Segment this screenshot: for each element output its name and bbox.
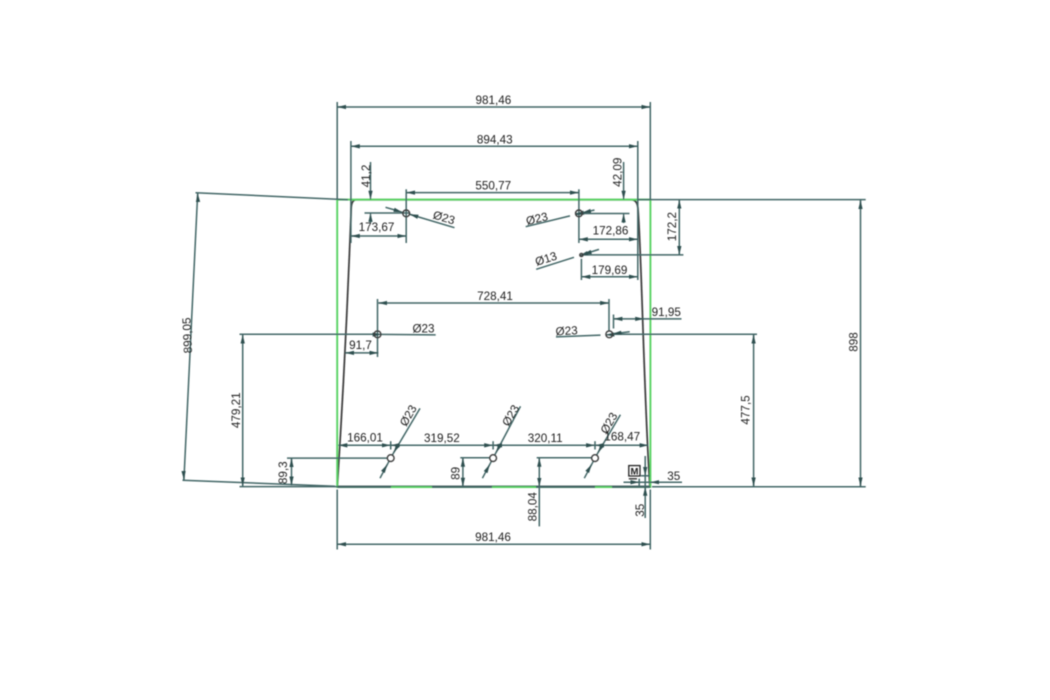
svg-text:899,05: 899,05 [180, 317, 195, 354]
svg-text:91,95: 91,95 [652, 306, 682, 319]
svg-text:172,2: 172,2 [666, 212, 679, 241]
svg-text:319,52: 319,52 [424, 432, 460, 445]
svg-text:41,2: 41,2 [360, 165, 373, 188]
svg-text:179,69: 179,69 [592, 264, 628, 277]
svg-text:981,46: 981,46 [475, 531, 511, 544]
svg-text:88,04: 88,04 [526, 492, 539, 522]
svg-text:Ø23: Ø23 [555, 324, 578, 338]
svg-text:981,46: 981,46 [476, 94, 512, 107]
svg-text:166,01: 166,01 [347, 432, 383, 445]
svg-text:550,77: 550,77 [475, 180, 511, 193]
svg-text:320,11: 320,11 [528, 432, 563, 445]
svg-text:Ø23: Ø23 [412, 322, 434, 335]
svg-text:91,7: 91,7 [349, 339, 372, 352]
svg-text:479,21: 479,21 [230, 392, 243, 428]
svg-text:M: M [630, 467, 638, 478]
svg-text:898: 898 [848, 332, 861, 352]
svg-text:172,86: 172,86 [593, 225, 629, 238]
svg-text:894,43: 894,43 [477, 134, 513, 147]
svg-text:35: 35 [634, 503, 647, 517]
svg-text:728,41: 728,41 [477, 290, 513, 303]
svg-text:42,09: 42,09 [612, 158, 625, 187]
svg-text:89: 89 [449, 467, 462, 480]
svg-text:89,3: 89,3 [277, 461, 290, 484]
svg-text:173,67: 173,67 [359, 221, 395, 234]
svg-text:477,5: 477,5 [740, 395, 753, 425]
svg-text:35: 35 [667, 470, 681, 483]
